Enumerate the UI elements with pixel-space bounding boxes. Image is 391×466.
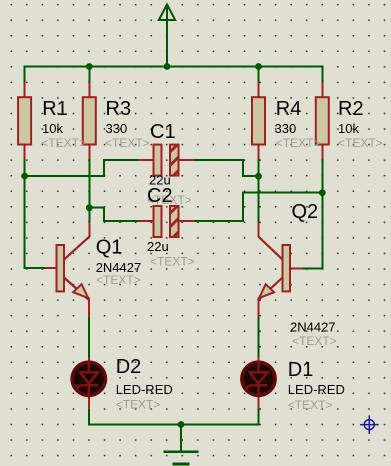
svg-text:R4: R4: [276, 98, 302, 120]
svg-text:<TEXT>: <TEXT>: [41, 136, 86, 150]
svg-text:<TEXT>: <TEXT>: [292, 334, 337, 348]
svg-text:Q2: Q2: [292, 201, 319, 223]
svg-text:<TEXT>: <TEXT>: [276, 136, 321, 150]
svg-text:R3: R3: [106, 98, 132, 120]
svg-text:22u: 22u: [149, 173, 171, 188]
svg-text:D1: D1: [288, 359, 314, 381]
svg-text:LED-RED: LED-RED: [288, 382, 345, 397]
svg-text:R1: R1: [42, 98, 68, 120]
svg-text:<TEXT>: <TEXT>: [288, 398, 333, 412]
svg-text:<TEXT>: <TEXT>: [105, 136, 150, 150]
svg-text:2N4427: 2N4427: [96, 260, 142, 275]
svg-text:<TEXT>: <TEXT>: [338, 136, 383, 150]
svg-text:330: 330: [275, 121, 297, 136]
svg-text:R2: R2: [338, 98, 364, 120]
svg-text:C2: C2: [147, 185, 173, 207]
svg-text:2N4427: 2N4427: [290, 319, 336, 334]
svg-text:Q1: Q1: [96, 237, 123, 259]
svg-text:10k: 10k: [42, 121, 63, 136]
svg-text:C1: C1: [150, 121, 176, 143]
svg-text:<TEXT>: <TEXT>: [116, 398, 161, 412]
svg-text:LED-RED: LED-RED: [116, 382, 173, 397]
svg-text:10k: 10k: [338, 121, 359, 136]
svg-text:<TEXT>: <TEXT>: [150, 254, 195, 268]
svg-text:D2: D2: [116, 356, 142, 378]
svg-text:330: 330: [106, 121, 128, 136]
svg-text:22u: 22u: [147, 239, 169, 254]
